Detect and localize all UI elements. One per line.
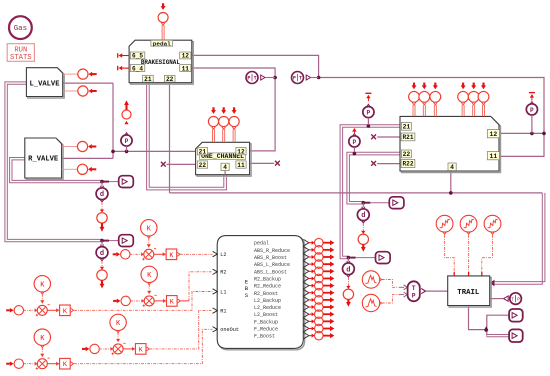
svg-text:T: T [299,76,302,82]
svg-text:F_Reduce: F_Reduce [254,327,278,333]
svg-text:22: 22 [403,151,411,158]
svg-text:R2_Backup: R2_Backup [254,276,281,282]
svg-text:pedal: pedal [254,241,269,247]
svg-text:R22: R22 [403,161,414,168]
svg-text:P: P [412,292,416,299]
svg-text:12: 12 [237,148,245,155]
svg-text:P: P [293,76,296,82]
svg-text:21: 21 [199,148,207,155]
svg-text:d: d [346,266,350,274]
svg-text:P: P [367,110,371,117]
svg-text:22: 22 [166,76,174,83]
svg-text:STATS: STATS [10,54,32,62]
svg-text:P: P [247,76,250,82]
svg-text:T: T [254,76,257,82]
svg-text:pedal: pedal [153,40,171,47]
svg-text:d: d [100,250,104,258]
svg-text:ABS_R_Reduce: ABS_R_Reduce [254,248,290,254]
svg-text:4: 4 [450,164,454,171]
svg-text:P: P [530,107,534,114]
svg-text:d: d [361,212,365,220]
svg-text:ABS_L_Boost: ABS_L_Boost [254,269,287,275]
svg-text:L2_Reduce: L2_Reduce [254,305,281,311]
svg-text:L_VALVE: L_VALVE [30,80,60,88]
svg-text:R2_Boost: R2_Boost [254,291,278,297]
svg-text:6_4: 6_4 [132,65,143,72]
svg-text:P: P [353,139,357,146]
svg-text:L2_Boost: L2_Boost [254,312,278,318]
svg-text:ABS_L_Reduce: ABS_L_Reduce [254,262,290,268]
svg-text:R21: R21 [403,134,414,141]
svg-text:ABS_R_Boost: ABS_R_Boost [254,255,287,261]
svg-text:R2_Reduce: R2_Reduce [254,284,281,290]
svg-text:12: 12 [490,131,498,138]
svg-text:T: T [511,297,514,303]
svg-text:RUN: RUN [14,46,27,54]
svg-text:BRAKESIGNAL: BRAKESIGNAL [141,59,180,66]
svg-text:F_Backup: F_Backup [254,319,278,325]
svg-text:R_VALVE: R_VALVE [28,156,58,164]
svg-text:4: 4 [223,164,227,171]
svg-text:L2_Backup: L2_Backup [254,298,281,304]
svg-text:12: 12 [182,53,190,60]
svg-text:oneOut: oneOut [220,327,239,333]
svg-text:P: P [517,297,520,303]
svg-text:L2: L2 [220,252,226,258]
svg-text:d: d [100,191,104,199]
svg-text:11: 11 [237,162,245,169]
svg-text:L1: L1 [220,289,226,295]
svg-text:Gas: Gas [14,25,27,33]
svg-text:R2: R2 [220,270,226,276]
svg-text:R1: R1 [220,309,226,315]
svg-text:11: 11 [490,153,498,160]
svg-text:11: 11 [182,65,190,72]
svg-text:22: 22 [199,162,207,169]
svg-text:T: T [412,285,416,292]
svg-text:TRAIL: TRAIL [457,289,479,297]
svg-text:21: 21 [403,124,411,131]
svg-text:F_Boost: F_Boost [254,334,275,340]
svg-text:21: 21 [144,76,152,83]
svg-text:P: P [125,138,129,145]
